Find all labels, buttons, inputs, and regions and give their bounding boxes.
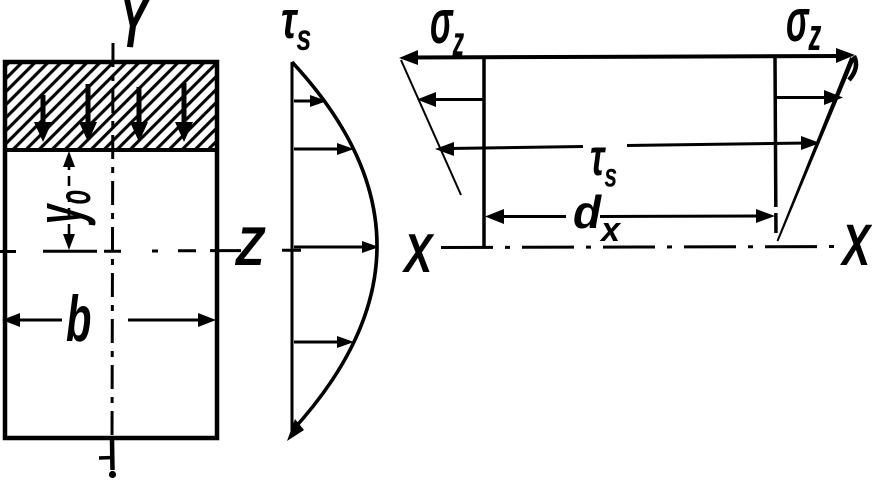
- sigma_z left slant line: [401, 60, 461, 195]
- svg-text:Z: Z: [234, 215, 266, 276]
- dimension d_x arrow: [485, 209, 775, 224]
- dimension b arrow: [2, 313, 216, 327]
- tau_s long arrow (both heads): [435, 136, 820, 156]
- sigma left arrow 1: [417, 92, 484, 107]
- shear arrow 4: [294, 336, 354, 348]
- sigma_z right slant line: [777, 57, 855, 241]
- label b: [66, 284, 91, 355]
- label sigma_z left: [430, 0, 464, 65]
- Y axis centerline: [112, 43, 113, 440]
- X axis dash-dot line: [441, 247, 843, 248]
- element right edge: [775, 57, 776, 241]
- label Z: [234, 215, 266, 276]
- svg-text:dx: dx: [573, 186, 622, 249]
- sigma right arrow 1: [775, 90, 843, 105]
- label sigma_z right: [786, 0, 822, 60]
- load arrow 1: [34, 95, 52, 142]
- load arrow 3: [130, 87, 148, 142]
- label tau_s (element): [590, 129, 617, 195]
- svg-text:σz: σz: [786, 0, 822, 60]
- shear diagram baseline: [291, 62, 294, 437]
- element left edge: [482, 57, 486, 247]
- svg-text:X: X: [401, 224, 434, 284]
- element top edge with end arrows: [399, 48, 856, 80]
- load arrow 2: [79, 84, 97, 142]
- load arrow 4: [175, 83, 193, 142]
- label d_x: [573, 186, 622, 249]
- svg-text:yo: yo: [23, 190, 100, 226]
- shear parabola end arrowhead: [287, 419, 304, 441]
- label Y: [118, 0, 153, 65]
- beam cross-section outline: [5, 62, 217, 438]
- dimension y0 arrow: [63, 151, 75, 250]
- label X right: [840, 212, 872, 277]
- shear parabola: [292, 62, 377, 431]
- shear arrow 2: [294, 143, 354, 155]
- svg-text:Y: Y: [118, 0, 153, 65]
- shear arrow 1: [294, 95, 327, 107]
- label X left: [401, 224, 434, 284]
- Y axis tail below section: [99, 440, 116, 478]
- hatched compression band: [3, 64, 219, 150]
- shear arrow 3 (max at neutral axis): [294, 241, 379, 253]
- Z axis centerline: [0, 250, 301, 251]
- svg-text:X: X: [840, 212, 872, 277]
- label tau_s (shear diagram): [281, 0, 311, 58]
- svg-text:τs: τs: [281, 0, 311, 58]
- svg-text:b: b: [66, 284, 91, 355]
